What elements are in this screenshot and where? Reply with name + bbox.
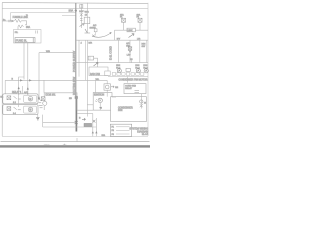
wire from lower resistor down to outer box: [17, 27, 19, 30]
wire horizontal right y30: [115, 29, 149, 31]
svg-text:POWER SUPPLY: POWER SUPPLY: [72, 50, 76, 72]
cluster in box E X: [140, 104, 143, 107]
diode arrow into relay 1: [18, 87, 20, 90]
wire down x93: [92, 114, 94, 137]
wire x85 mid: [84, 40, 86, 80]
connector cluster on box B left: [38, 96, 47, 108]
motor circle right: [105, 85, 109, 89]
svg-text:M: M: [29, 98, 31, 101]
wire long horizontal right: [108, 76, 148, 78]
connector block mid: [88, 56, 93, 60]
wire relay drop B: [27, 84, 29, 94]
svg-text:M: M: [29, 109, 31, 112]
box G outline: [89, 67, 108, 76]
wire mid vertical x87 upper: [86, 3, 88, 33]
wire x114 drop: [114, 30, 116, 40]
connector X on arc left: [93, 35, 95, 37]
wire branch right of trunk: [80, 4, 82, 28]
svg-text:ECM 101: ECM 101: [46, 94, 57, 97]
connector dashes on left feed: [9, 20, 11, 22]
legend box: [110, 124, 131, 136]
wire box D feed: [127, 77, 129, 83]
link label box on y30 wire: [127, 28, 135, 32]
wire main trunk lower dark: [75, 96, 77, 132]
wire branch y52 to trunk: [39, 52, 76, 54]
connector block tick: [89, 56, 91, 60]
cluster dot: [38, 98, 39, 99]
wire y104.8 to box C: [87, 104, 93, 106]
wire bottom frame line 1: [2, 136, 148, 138]
wire connector to vertical: [94, 58, 98, 67]
connector X on branch: [80, 13, 83, 16]
X connector bottom center: [93, 120, 96, 123]
svg-text:30A: 30A: [69, 9, 74, 13]
svg-text:IGNITION: IGNITION: [94, 94, 105, 96]
diode under transistor: [99, 107, 102, 109]
svg-text:FAN: FAN: [118, 109, 123, 112]
fuse X in relay 1: [7, 96, 11, 100]
svg-text:RELAY 1: RELAY 1: [12, 91, 22, 94]
wire left feed: [2, 20, 14, 22]
wire vertical pair left A: [23, 43, 25, 80]
wire inner left vertical: [10, 13, 12, 21]
wire mid vertical x79: [78, 40, 80, 76]
wire third bus: [11, 12, 76, 14]
hatched link box bottom center: [84, 123, 92, 126]
relay box D right: [124, 84, 146, 94]
svg-text:A/C: A/C: [24, 91, 28, 94]
relay 1 pin dots: [18, 93, 19, 94]
wire relay drop C: [21, 86, 23, 94]
middle string dot: [129, 51, 130, 52]
wire fuse block tick: [32, 38, 34, 43]
wire horizontal y122.4: [43, 121, 77, 123]
wire vertical pair left B: [27, 43, 29, 94]
wire stub bus to trunk: [62, 15, 76, 17]
diode arrow into relay 2: [27, 87, 29, 90]
middle string wire: [129, 40, 131, 62]
fusible link outer box: [14, 30, 42, 44]
motor box right: [104, 84, 110, 90]
ground symbol at x38: [36, 117, 39, 120]
box B outline: [44, 93, 77, 110]
relay box 2 outline: [3, 105, 38, 115]
wire horizontal with arrows left: [5, 79, 107, 81]
svg-text:RELAY: RELAY: [125, 87, 132, 90]
outer box right marks: [36, 31, 38, 34]
transistor circle in box C: [98, 98, 102, 102]
wire horizontal y127: [43, 126, 97, 128]
arrowhead on arc: [110, 32, 112, 34]
motor M2 circle: [136, 69, 140, 73]
svg-text:SW: SW: [126, 45, 129, 47]
wire second bus: [2, 8, 148, 10]
diode arrow 2 on wire: [29, 79, 32, 81]
relay 2 contact marks: [14, 107, 21, 110]
transistor legs: [96, 99, 98, 102]
cluster in box E circle: [140, 100, 143, 103]
relay 2 inner box: [24, 106, 37, 113]
svg-text:E-21 COND: E-21 COND: [109, 46, 113, 60]
wire into box C top: [95, 80, 97, 92]
bottom dark band: [0, 145, 150, 147]
diode arrow mid: [94, 62, 99, 66]
cluster fuse X: [41, 97, 45, 101]
svg-text:DIAGRAM: DIAGRAM: [137, 130, 148, 133]
wire branch drop x39: [38, 53, 40, 99]
stub wire: [95, 32, 97, 36]
wire under F2: [139, 22, 141, 30]
wire cluster vertical: [140, 94, 142, 109]
wire left drop to relay: [4, 80, 6, 94]
relay 1 inner box: [24, 95, 37, 102]
fuse F1 box: [122, 18, 126, 22]
fuse F2 box: [138, 18, 142, 22]
svg-text:30A: 30A: [26, 26, 31, 29]
wire bottom frame line 2: [1, 141, 150, 143]
arrow right of motor box: [111, 86, 114, 88]
wire jog from A down to relay: [19, 77, 24, 94]
svg-text:FUSE BL: FUSE BL: [16, 39, 28, 43]
relay 1 coil circle: [28, 96, 33, 101]
fusible link symbol right of trunk: [80, 5, 83, 9]
wire left lower vertical x37: [37, 115, 39, 117]
wire under F1: [123, 22, 125, 30]
cluster entry arrow: [38, 96, 40, 98]
stub fuse box: [94, 29, 97, 32]
diode arrow on branch: [80, 23, 85, 26]
svg-text:*1: *1: [26, 15, 28, 17]
wire motor box feed: [106, 80, 108, 96]
wire arc jumper: [92, 33, 111, 37]
wire horizontal right y40: [76, 39, 148, 41]
wire trunk to right y113.5: [77, 113, 93, 115]
svg-text:CONDENSER FAN MOTOR: CONDENSER FAN MOTOR: [119, 79, 148, 82]
arrowhead on x96 vertical: [95, 131, 97, 133]
switch blob bottom x87: [85, 29, 91, 33]
component small box x87: [84, 17, 90, 24]
svg-text:M: M: [144, 103, 146, 105]
wire trunk to box E upper: [77, 109, 111, 111]
diode arrow on left feed: [12, 20, 14, 22]
svg-text:RAD FAN: RAD FAN: [90, 73, 100, 76]
small box between motors: [126, 68, 130, 71]
cluster ticks: [39, 106, 43, 108]
branch tick marks: [80, 19, 83, 21]
svg-text:. • .: . • .: [63, 144, 66, 146]
footer tick: [76, 138, 78, 142]
wire x87 lower: [86, 40, 88, 116]
fuse X in relay 2: [7, 107, 11, 111]
node battery feed junction: [75, 10, 77, 12]
connector X at trunk on y122: [75, 121, 78, 124]
svg-text:LINK: LINK: [128, 30, 133, 32]
box G side box: [105, 71, 110, 76]
wire horizontal right y62.6: [76, 62, 148, 64]
cluster arrow: [39, 99, 42, 103]
relay 1 contact marks: [14, 96, 21, 99]
motor M3 circle: [144, 69, 148, 73]
tick label on y62 wire: [131, 61, 133, 63]
svg-text:L/W: L/W: [127, 55, 131, 57]
diode arrow under y30: [129, 33, 135, 37]
arrowhead on x92 vertical: [92, 131, 94, 133]
fuse block label box: [15, 38, 35, 43]
svg-text:ROUTING B/W: ROUTING B/W: [72, 76, 76, 95]
box E outline: [111, 97, 147, 122]
diode arrow 1 on wire: [20, 79, 23, 81]
svg-text:W/B: W/B: [46, 51, 51, 53]
wire left border: [1, 3, 3, 136]
diode cluster under trunk bottom arrow1: [82, 118, 85, 120]
transistor arrow: [99, 99, 101, 101]
svg-text:B/R: B/R: [89, 43, 93, 45]
cluster circle: [43, 101, 47, 105]
wire down x96.5: [95, 118, 97, 136]
wire top border bus: [2, 2, 148, 5]
relay 2 coil circle: [28, 107, 33, 112]
svg-text:SYSTEM WIRING: SYSTEM WIRING: [129, 129, 148, 131]
wire f1 branch down from y40: [117, 40, 119, 62]
resistor R upper: [15, 19, 22, 22]
wire main trunk upper: [75, 3, 77, 96]
resistor R lower: [18, 25, 23, 28]
wire x147 branch: [146, 40, 148, 62]
relay box 1 outline: [3, 94, 38, 104]
center box C outline: [93, 93, 116, 111]
svg-text:W/R: W/R: [85, 12, 90, 14]
wire arrow wire drop to box: [43, 80, 45, 92]
svg-text:L/R: L/R: [137, 39, 141, 41]
wire right border: [147, 3, 149, 136]
middle string fuse box: [128, 47, 132, 51]
wire bend down to lower resistor: [21, 21, 26, 25]
box D component: [135, 91, 140, 93]
svg-text:B/Y: B/Y: [117, 39, 121, 41]
svg-text:FUSIBLE LINK: FUSIBLE LINK: [13, 17, 29, 19]
wire f2 branch down from y40: [139, 40, 141, 62]
motor M1 circle: [117, 69, 121, 73]
wire through relays vertical: [18, 89, 20, 107]
wire box C internals: [99, 103, 101, 111]
center box C bottom: [93, 109, 100, 111]
svg-text:. . . . .: . . . . .: [44, 144, 50, 146]
trunk connector blob: [75, 96, 78, 99]
terminal strip row: [112, 73, 144, 76]
svg-text:EL-14: EL-14: [142, 134, 149, 136]
wire left lower vertical x43: [42, 115, 44, 127]
